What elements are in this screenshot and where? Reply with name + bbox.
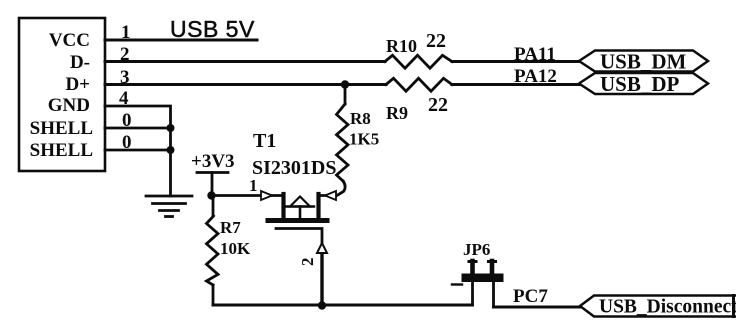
wire SHELL pin to bus — [105, 127, 171, 130]
svg-text:+3V3: +3V3 — [191, 151, 235, 172]
wire gate of T1 — [212, 194, 282, 197]
JP6 left pin top — [470, 261, 475, 276]
svg-text:1K5: 1K5 — [349, 130, 379, 149]
transistor T1 (P-MOSFET symbol) — [268, 194, 327, 305]
junction node gate / +3V3 / R7 — [207, 191, 215, 199]
svg-text:SHELL: SHELL — [30, 118, 93, 139]
pin 2 wire with up arrow — [320, 253, 323, 306]
svg-text:PA11: PA11 — [514, 44, 556, 65]
flag USB_DP — [579, 73, 708, 94]
svg-text:2: 2 — [298, 258, 317, 267]
svg-text:R10: R10 — [386, 36, 417, 56]
wire D- pin2 to R10 — [105, 60, 385, 63]
svg-text:T1: T1 — [253, 130, 276, 152]
svg-text:10K: 10K — [220, 239, 251, 258]
junction dot bottom wire — [318, 301, 326, 309]
arrowhead pin 2 — [317, 243, 327, 253]
svg-text:VCC: VCC — [49, 30, 90, 51]
svg-text:USB_DP: USB_DP — [600, 72, 680, 96]
wire R9 to USB_DP flag — [452, 83, 580, 86]
svg-text:D+: D+ — [65, 74, 90, 95]
svg-text:R7: R7 — [220, 218, 241, 237]
wire D+ pin3 to R9 — [105, 83, 386, 86]
wire SHELL pin 2 to bus — [105, 149, 171, 152]
svg-text:USB_Disconnect: USB_Disconnect — [599, 297, 736, 318]
JP6 right pin top — [490, 261, 495, 276]
T1 left bar — [281, 194, 285, 219]
svg-text:GND: GND — [48, 95, 90, 116]
flag USB_DM — [579, 51, 708, 72]
arrowhead on gate wire — [261, 191, 272, 200]
svg-text:PA12: PA12 — [514, 66, 557, 87]
svg-text:SHELL: SHELL — [30, 140, 93, 161]
wire R10 to USB_DM flag — [452, 60, 580, 63]
T1 thick bottom bar — [268, 218, 327, 223]
flag USB_Disconnect — [580, 296, 736, 317]
JP6 tick — [452, 283, 462, 285]
svg-text:USB_DM: USB_DM — [600, 50, 687, 74]
junction dot shell2 — [167, 146, 175, 154]
svg-text:22: 22 — [428, 94, 448, 116]
T1 body arrow (up triangle) — [290, 197, 310, 207]
resistor R10 — [385, 55, 452, 68]
svg-text:PC7: PC7 — [513, 286, 548, 307]
wire VCC pin1 to USB 5V — [105, 39, 257, 42]
resistor R7 — [212, 196, 215, 217]
JP6 right pin lower — [492, 282, 495, 308]
T1 lower plate — [276, 229, 322, 306]
junction dot D+ / R8 — [341, 80, 349, 88]
junction dot shell1 — [167, 124, 175, 132]
resistor R9 — [386, 78, 452, 91]
T1 right bar — [316, 194, 320, 219]
svg-text:D-: D- — [70, 52, 90, 73]
connector J1 USB socket body — [19, 18, 105, 171]
svg-text:R8: R8 — [350, 109, 371, 128]
resistor R8 — [344, 85, 347, 105]
wire GND pin4 to shell bus — [105, 106, 171, 196]
bottom wire R7 to JP6 — [213, 304, 473, 307]
svg-text:JP6: JP6 — [463, 240, 490, 259]
wire R8 to T1 drain with arrowhead — [321, 181, 345, 196]
svg-text:R9: R9 — [386, 103, 408, 123]
ground symbol — [146, 196, 192, 217]
JP6 left pin lower — [471, 282, 474, 306]
wire JP6 to USB_Disconnect flag — [494, 306, 582, 309]
svg-text:SI2301DS: SI2301DS — [252, 157, 336, 179]
svg-text:USB 5V: USB 5V — [170, 16, 255, 42]
JP6 shunt bar — [462, 274, 504, 283]
jumper JP6 — [452, 261, 504, 307]
arrowhead on drain wire — [325, 191, 336, 200]
svg-text:22: 22 — [426, 30, 446, 52]
